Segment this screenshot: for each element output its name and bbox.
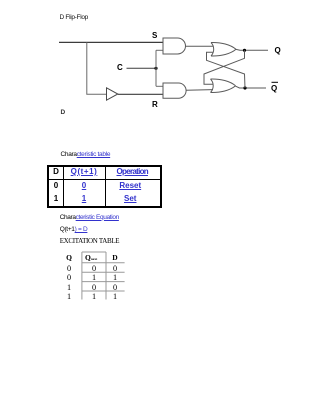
wire: inverter output to AND2 lower input <box>118 93 163 95</box>
node: Q output junction dot <box>243 49 246 52</box>
node: C junction dot <box>154 67 157 70</box>
excitation header Q <box>63 253 75 262</box>
wire: clock vertical distribution <box>155 50 157 86</box>
row separator 2 <box>82 271 125 273</box>
column line 1 <box>63 167 64 206</box>
wire: feedback Q to OR2 upper input <box>204 50 245 84</box>
wire: C input horizontal <box>127 67 157 69</box>
wire: AND2 output to OR2 lower input <box>186 89 213 92</box>
AND gate R (bottom) <box>163 83 186 98</box>
label S <box>152 31 157 40</box>
equation Q(t+1) = D <box>60 226 88 233</box>
wire: feedback Qbar to OR1 lower input <box>207 52 246 88</box>
excitation rows <box>63 264 75 273</box>
title "D Flip-Flop" <box>60 14 88 21</box>
row separator 3 <box>82 281 125 283</box>
row separator 4 <box>82 290 125 292</box>
label Q <box>275 46 281 55</box>
table row2 <box>48 194 64 203</box>
label C <box>117 63 123 72</box>
wire: stub into AND1 lower input <box>156 49 163 51</box>
row separator 1 <box>82 262 125 264</box>
node: Qbar output junction dot <box>243 86 246 89</box>
wire: stub into AND2 upper input <box>156 85 163 87</box>
wire: D branch vertical down to inverter <box>87 42 107 94</box>
NOR/OR gate U2 (bottom latch gate) <box>211 79 236 93</box>
heading EXCITATION TABLE <box>60 237 120 245</box>
wire: OR1 output to Q <box>236 48 268 51</box>
label D input <box>61 109 66 116</box>
vertical line right of Qnext column <box>105 252 107 300</box>
label Qbar <box>271 84 277 93</box>
inverter (buffer triangle) on D line <box>107 88 118 100</box>
AND gate S (top) <box>163 38 186 54</box>
excitation table grid lines <box>0 245 320 365</box>
characteristic table <box>47 165 162 208</box>
wire: AND1 output to OR1 upper input <box>186 45 214 47</box>
link: Characteristic Equation <box>60 214 119 221</box>
table header D <box>48 167 64 176</box>
excitation header D <box>109 253 121 262</box>
link: Characteristic table <box>61 151 111 158</box>
column line 2 <box>105 167 106 206</box>
wire: OR2 output to Qbar <box>236 86 266 88</box>
header separator <box>49 179 160 180</box>
excitation header Qnext <box>85 253 97 262</box>
top cap line <box>82 251 106 253</box>
circuit schematic SVG <box>0 0 320 135</box>
table row1 <box>48 181 64 190</box>
wire: D input horizontal line to AND1 top input <box>59 41 163 43</box>
table header Operation <box>105 167 160 176</box>
vertical line left of Qnext column <box>81 252 83 300</box>
label: Qbar overline <box>272 81 279 83</box>
label R <box>152 100 158 109</box>
NOR/OR gate U1 (top latch gate) <box>211 42 236 56</box>
table header Q(t+1) <box>63 167 106 176</box>
